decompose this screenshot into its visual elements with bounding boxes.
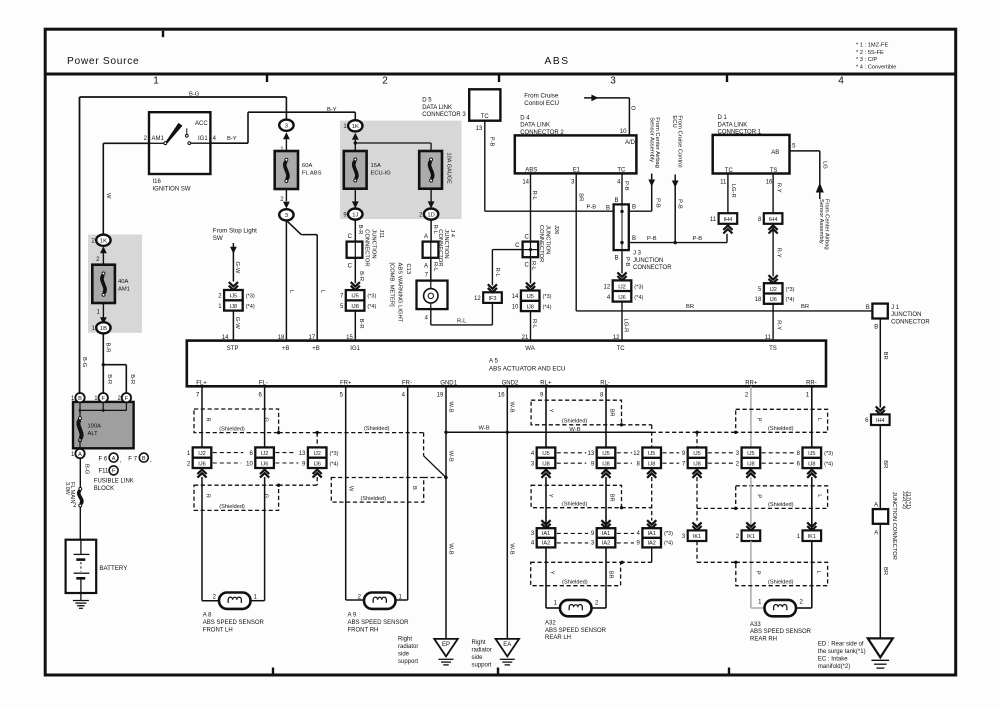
wire B-G top	[80, 91, 287, 393]
connector 1B	[91, 303, 110, 333]
section ticks and numbers	[153, 31, 844, 674]
wire FL- lower	[251, 477, 265, 601]
svg-text:P-B: P-B	[676, 199, 682, 209]
svg-text:the surge tank(*1): the surge tank(*1)	[818, 649, 866, 655]
svg-text:P-B: P-B	[647, 236, 657, 242]
svg-text:FL-: FL-	[259, 380, 268, 386]
svg-text:B: B	[614, 256, 618, 262]
svg-text:IK1: IK1	[693, 534, 701, 540]
svg-text:IJ5: IJ5	[648, 451, 655, 457]
svg-text:J 3: J 3	[633, 251, 642, 257]
connector 3 upper	[279, 120, 293, 153]
svg-text:A: A	[874, 502, 878, 508]
svg-text:DATA LINK: DATA LINK	[520, 123, 550, 129]
svg-text:13: 13	[588, 451, 595, 457]
wire B-Y from IG1	[210, 107, 355, 143]
svg-text:manifold(*2): manifold(*2)	[818, 664, 850, 670]
header title Power Source	[67, 56, 139, 67]
dashed W-B to RR shield	[652, 431, 738, 448]
svg-text:IG1: IG1	[198, 136, 208, 142]
wire G-W to STP pin	[222, 311, 240, 341]
svg-text:R-Y: R-Y	[775, 320, 781, 330]
wire W-B bus	[444, 425, 651, 434]
From Stop Light SW source	[213, 228, 257, 282]
svg-text:60A: 60A	[302, 163, 312, 169]
svg-text:13: 13	[299, 451, 306, 457]
wire G-W to IJ5	[229, 262, 240, 291]
svg-text:17: 17	[309, 335, 316, 341]
svg-text:W: W	[105, 193, 111, 199]
svg-text:A: A	[424, 263, 428, 269]
svg-text:JUNCTION: JUNCTION	[545, 225, 551, 254]
svg-text:(*3): (*3)	[543, 294, 552, 300]
svg-text:3.0W: 3.0W	[64, 482, 70, 496]
svg-text:TS: TS	[769, 346, 777, 352]
svg-text:IJ6: IJ6	[198, 461, 205, 467]
svg-text:ABS: ABS	[545, 56, 570, 67]
svg-text:(*4): (*4)	[246, 304, 255, 310]
ground ED EC	[868, 638, 893, 668]
junction IJ5 IJ8 (STP)	[218, 290, 255, 311]
svg-text:TC: TC	[617, 346, 626, 352]
svg-text:IJ5: IJ5	[542, 451, 549, 457]
svg-text:EC : Intake: EC : Intake	[818, 657, 848, 663]
svg-text:Right: Right	[398, 637, 412, 643]
wire RR+ upper	[750, 386, 752, 447]
svg-text:(*4): (*4)	[824, 461, 833, 467]
svg-text:O: O	[630, 106, 636, 111]
junction IJ5 IJ8 (RR-)	[797, 448, 834, 478]
wire GND2 W-B	[507, 386, 514, 639]
svg-text:(Shielded): (Shielded)	[562, 419, 588, 425]
svg-text:ABS WARNING LIGHT: ABS WARNING LIGHT	[397, 263, 403, 323]
svg-text:IA1: IA1	[602, 531, 610, 537]
speed sensor A8 front LH	[203, 593, 265, 634]
svg-text:IJ8: IJ8	[648, 461, 655, 467]
wire J4 to C13	[424, 258, 438, 281]
svg-text:* 3 : C/P: * 3 : C/P	[856, 57, 877, 63]
junction connector J4	[423, 229, 455, 266]
svg-text:CONNECTOR: CONNECTOR	[363, 229, 369, 266]
gray panel fuse block	[340, 121, 462, 219]
junction IJ2 IJ6 (FL-)	[246, 447, 274, 477]
svg-text:SW: SW	[213, 235, 223, 242]
svg-text:ECU-IG: ECU-IG	[371, 171, 392, 177]
svg-text:L: L	[816, 418, 822, 421]
shield box FL upper	[194, 409, 280, 434]
svg-text:D 1: D 1	[718, 115, 728, 121]
svg-text:BLOCK: BLOCK	[94, 486, 114, 492]
svg-text:B-R: B-R	[105, 343, 111, 353]
connector 1K (AM1 fuse)	[91, 235, 110, 265]
svg-text:A 8: A 8	[203, 613, 212, 619]
junction IJ2 IJ6 (FL shield)	[299, 447, 339, 477]
svg-text:C: C	[515, 243, 520, 249]
ECU top pin labels	[227, 335, 777, 352]
wire FL+ sensor	[201, 386, 203, 469]
svg-text:B: B	[866, 305, 870, 311]
svg-text:IK1: IK1	[747, 534, 755, 540]
svg-text:ABS SPEED SENSOR: ABS SPEED SENSOR	[545, 628, 607, 634]
wire B-R 1J to J11	[348, 220, 364, 242]
svg-text:Y: Y	[548, 409, 554, 413]
svg-text:IJ5: IJ5	[230, 294, 237, 300]
svg-text:100A: 100A	[88, 424, 102, 430]
svg-text:Sensor Assembly: Sensor Assembly	[818, 199, 824, 244]
svg-text:IJ8: IJ8	[602, 461, 609, 467]
svg-text:AM1: AM1	[152, 136, 165, 142]
svg-text:F: F	[112, 469, 116, 475]
svg-text:10: 10	[620, 129, 627, 135]
svg-text:12: 12	[633, 451, 640, 457]
svg-text:F 7: F 7	[128, 456, 137, 462]
wire BR bus E1 to J1	[576, 304, 872, 311]
svg-text:R-L: R-L	[432, 262, 438, 272]
wire R-L J26 to IJ5	[526, 257, 536, 290]
wire FL+ lower	[202, 477, 219, 601]
speed sensor A32 rear LH	[545, 600, 607, 641]
svg-text:C: C	[348, 263, 353, 269]
svg-text:(*3): (*3)	[786, 287, 795, 293]
svg-text:BR: BR	[686, 304, 694, 310]
wire +B pin18	[286, 220, 294, 340]
svg-text:P-B: P-B	[655, 198, 661, 208]
wire B-R J11 to IJ5	[348, 258, 364, 290]
svg-text:1: 1	[153, 76, 159, 87]
svg-text:12: 12	[474, 296, 481, 302]
fuse 10A GAUGE	[419, 151, 451, 189]
svg-text:(*3): (*3)	[634, 284, 643, 290]
svg-text:BR: BR	[609, 409, 615, 417]
junction IJ5 IJ8 (RR shield)	[682, 448, 706, 478]
svg-text:* 1 : 1MZ-FE: * 1 : 1MZ-FE	[856, 43, 888, 49]
svg-text:14: 14	[522, 179, 529, 185]
svg-text:B: B	[632, 205, 636, 211]
svg-text:R-Y: R-Y	[775, 183, 781, 193]
speed sensor A9 front RH	[348, 593, 410, 634]
svg-text:E1: E1	[573, 168, 581, 174]
shield drain RL bottom	[620, 547, 651, 564]
svg-text:C: C	[348, 234, 353, 240]
connector 1J	[343, 189, 362, 220]
svg-text:15A: 15A	[371, 163, 381, 169]
svg-text:B-R: B-R	[106, 374, 112, 384]
svg-text:AM1: AM1	[118, 287, 130, 293]
svg-text:DATA LINK: DATA LINK	[718, 122, 748, 128]
connector 1D	[419, 189, 438, 220]
wire B J3 to IJ2	[614, 250, 630, 280]
svg-text:TC: TC	[617, 168, 626, 174]
header title ABS	[545, 56, 570, 67]
svg-text:ABS SPEED SENSOR: ABS SPEED SENSOR	[203, 620, 265, 626]
svg-text:(Shielded): (Shielded)	[768, 426, 794, 432]
shield box RR middle	[697, 486, 828, 510]
svg-text:G: G	[263, 494, 269, 498]
fuse 60A FL ABS	[275, 151, 322, 189]
svg-text:IJ8: IJ8	[542, 461, 549, 467]
svg-text:LG-R: LG-R	[730, 184, 736, 198]
svg-text:1J: 1J	[352, 212, 358, 218]
wire B-R to fusible links	[102, 333, 135, 393]
svg-text:J11: J11	[378, 229, 384, 238]
svg-text:1B: 1B	[100, 326, 107, 332]
svg-text:R: R	[205, 418, 211, 422]
svg-text:P: P	[756, 418, 762, 422]
ignition switch I16 box	[144, 112, 217, 192]
connector 3 lower	[279, 189, 293, 220]
svg-text:B: B	[632, 236, 636, 242]
svg-text:B: B	[142, 456, 146, 462]
svg-text:(Shielded): (Shielded)	[562, 502, 588, 508]
svg-text:B-G: B-G	[189, 91, 200, 97]
svg-text:W-B: W-B	[448, 402, 454, 413]
svg-text:12: 12	[604, 284, 611, 290]
svg-text:A 9: A 9	[348, 613, 357, 619]
svg-text:R-L: R-L	[457, 318, 467, 324]
svg-text:11: 11	[710, 217, 717, 223]
svg-text:FL+: FL+	[196, 380, 207, 386]
svg-text:11: 11	[720, 180, 727, 186]
shield box RR upper	[736, 409, 828, 432]
junction IJ5 IJ8 (IG1)	[340, 290, 377, 311]
svg-text:TC: TC	[725, 168, 734, 174]
note ED EC	[818, 642, 866, 670]
svg-text:3: 3	[610, 76, 616, 87]
svg-text:W-B: W-B	[448, 451, 454, 462]
data link connector 1 D1	[713, 115, 790, 174]
svg-text:J 1: J 1	[891, 305, 900, 311]
ABS warning light C13	[389, 263, 448, 323]
battery	[66, 540, 128, 601]
svg-text:IJ6: IJ6	[261, 461, 268, 467]
svg-text:DATA LINK: DATA LINK	[422, 105, 452, 111]
svg-text:2: 2	[382, 76, 388, 87]
svg-text:R-L: R-L	[432, 225, 438, 235]
fuse 15A ECU-IG	[344, 151, 391, 189]
svg-text:16: 16	[766, 180, 773, 186]
junction IJ5 IJ8 (RL-)	[588, 448, 616, 478]
svg-text:IK1: IK1	[808, 534, 816, 540]
svg-text:A33: A33	[750, 622, 761, 628]
svg-text:IA2: IA2	[542, 541, 550, 547]
svg-text:P-B: P-B	[624, 257, 630, 267]
svg-text:IJ2: IJ2	[198, 451, 205, 457]
svg-text:J22(*2): J22(*2)	[901, 491, 907, 509]
svg-text:FRONT LH: FRONT LH	[203, 627, 233, 633]
svg-text:IA1: IA1	[542, 531, 550, 537]
wire R-Y D1 TS to IH4	[766, 174, 782, 214]
svg-text:P-B: P-B	[488, 137, 494, 147]
wire B-R to IG1 pin	[346, 311, 364, 341]
svg-text:IA1: IA1	[647, 531, 655, 537]
svg-text:IH4: IH4	[876, 418, 885, 424]
svg-text:IJ2: IJ2	[313, 451, 320, 457]
connector IH4 (6)	[865, 406, 889, 425]
svg-text:W-B: W-B	[448, 543, 454, 554]
svg-text:R-L: R-L	[494, 268, 500, 278]
svg-text:(Shielded): (Shielded)	[768, 502, 794, 508]
fuse FL MAIN 3.0W	[64, 458, 90, 539]
svg-text:A: A	[112, 456, 116, 462]
wire to 10A GAUGE	[354, 141, 432, 151]
svg-text:(Shielded): (Shielded)	[361, 496, 387, 502]
svg-text:Sensor Assembly: Sensor Assembly	[648, 117, 654, 162]
svg-text:JUNCTION CONNECTOR: JUNCTION CONNECTOR	[891, 492, 897, 560]
svg-text:IJ6: IJ6	[313, 461, 320, 467]
svg-text:10A GAUGE: 10A GAUGE	[446, 153, 452, 185]
battery ground	[73, 601, 89, 609]
wire RL+ sensor	[545, 386, 547, 469]
svg-text:(*3): (*3)	[664, 531, 673, 537]
svg-text:+B: +B	[312, 346, 320, 352]
svg-text:B: B	[874, 325, 878, 331]
junction connector J1	[866, 304, 931, 331]
shield drain RR bottom	[697, 541, 738, 564]
wire BR D4 E1	[571, 173, 583, 311]
svg-text:B-R: B-R	[129, 374, 135, 384]
svg-text:(*3): (*3)	[246, 294, 255, 300]
svg-text:18: 18	[278, 335, 285, 341]
svg-text:JUNCTION: JUNCTION	[633, 258, 663, 264]
svg-text:13: 13	[476, 126, 483, 132]
svg-text:AB: AB	[771, 150, 779, 156]
ground EA	[472, 639, 520, 669]
wire P-B D4 TC to J3	[614, 173, 629, 204]
svg-text:IJ2: IJ2	[618, 284, 625, 290]
wire P-B J3 to IH4	[629, 234, 727, 245]
svg-text:IH4: IH4	[724, 217, 733, 223]
svg-text:4: 4	[838, 76, 844, 87]
shield box RR bottom	[736, 562, 828, 585]
svg-text:G-W: G-W	[234, 262, 240, 274]
svg-text:P-B: P-B	[693, 236, 703, 242]
wires RL through middle shield	[546, 477, 812, 530]
wire R-L to WA pin	[522, 311, 537, 341]
junction IA1 IA2 (RL+)	[531, 528, 555, 547]
svg-text:* 4 : Convertible: * 4 : Convertible	[856, 64, 896, 70]
ECU bottom pin labels	[196, 380, 817, 398]
svg-text:GND1: GND1	[440, 380, 457, 386]
svg-text:G: G	[263, 418, 269, 422]
svg-text:FUSIBLE LINK: FUSIBLE LINK	[94, 479, 134, 485]
svg-text:B: B	[606, 206, 610, 212]
svg-text:P-B: P-B	[587, 205, 597, 211]
svg-text:FL ABS: FL ABS	[302, 171, 322, 177]
svg-text:R-L: R-L	[531, 191, 537, 201]
svg-text:1K: 1K	[352, 124, 359, 130]
connector 1K ECU-IG	[343, 112, 362, 151]
svg-text:RL+: RL+	[540, 380, 552, 386]
svg-text:J26: J26	[553, 225, 559, 234]
svg-text:EP: EP	[442, 642, 450, 648]
From Cruise Control arrow (mid)	[671, 115, 683, 243]
svg-text:(*3): (*3)	[824, 451, 833, 457]
svg-text:CONNECTOR: CONNECTOR	[437, 229, 443, 266]
wire LG-R to TC pin	[613, 302, 629, 341]
wire R-L D4 ABS to WA	[522, 173, 537, 241]
svg-text:(Shielded): (Shielded)	[562, 580, 588, 586]
svg-text:ACC: ACC	[195, 121, 208, 127]
shield box RL bottom	[531, 562, 621, 585]
svg-text:BR: BR	[578, 193, 584, 201]
svg-text:D 4: D 4	[520, 115, 530, 121]
fusible link block pins B F F	[71, 393, 131, 402]
dashed columns to IA IK	[652, 477, 697, 521]
connector link dashes RL RR	[557, 453, 794, 463]
svg-text:B: B	[78, 396, 82, 402]
svg-text:(*4): (*4)	[786, 297, 795, 303]
svg-text:From Stop Light: From Stop Light	[213, 228, 257, 235]
svg-text:RR-: RR-	[806, 380, 817, 386]
shield box FL lower	[194, 477, 317, 510]
svg-text:ECU: ECU	[671, 115, 677, 127]
svg-text:(*3): (*3)	[367, 294, 376, 300]
junction IJ2 IJ6 (TC)	[604, 280, 644, 301]
wire LG D1 AB from airbag	[790, 143, 830, 249]
svg-text:IGNITION SW: IGNITION SW	[153, 186, 191, 192]
svg-text:A: A	[78, 452, 82, 458]
svg-text:W-B: W-B	[509, 543, 515, 554]
wire +B pin17	[286, 220, 324, 340]
svg-text:IA2: IA2	[602, 541, 610, 547]
svg-text:IJ5: IJ5	[693, 451, 700, 457]
svg-text:IJ8: IJ8	[747, 461, 754, 467]
svg-text:B-G: B-G	[81, 357, 87, 368]
svg-text:ABS: ABS	[525, 168, 537, 174]
wire to 60A FL ABS	[285, 97, 287, 120]
svg-text:I16: I16	[153, 179, 162, 185]
chevrons into IA IK row	[541, 520, 816, 530]
svg-text:CONNECTOR: CONNECTOR	[633, 265, 672, 271]
svg-text:IH4: IH4	[769, 217, 778, 223]
junction IJ5 IJ8 (RR+)	[736, 448, 760, 478]
svg-text:R: R	[205, 494, 211, 498]
svg-text:G-W: G-W	[234, 317, 240, 329]
svg-text:B-R: B-R	[357, 225, 363, 235]
alternator 100A ALT box	[73, 402, 134, 449]
svg-text:BR: BR	[882, 567, 888, 575]
svg-text:CONNECTOR: CONNECTOR	[891, 319, 930, 325]
svg-text:(Shielded): (Shielded)	[364, 426, 390, 432]
svg-text:FR+: FR+	[340, 380, 352, 386]
svg-text:W-B: W-B	[509, 402, 515, 413]
svg-text:(*4): (*4)	[330, 461, 339, 467]
svg-text:ED : Rear side of: ED : Rear side of	[818, 642, 864, 648]
svg-text:IJ8: IJ8	[230, 304, 237, 310]
fusible link block labels F6 F7 F11	[94, 453, 152, 492]
junction IJ5 IJ8 (WA)	[512, 291, 552, 312]
svg-text:10: 10	[246, 461, 253, 467]
junction IJ5 IJ8 (RL shield)	[633, 448, 661, 478]
svg-text:BR: BR	[801, 304, 809, 310]
svg-text:TS: TS	[770, 168, 778, 174]
svg-text:3: 3	[285, 213, 288, 219]
svg-text:B-R: B-R	[358, 319, 364, 329]
svg-text:ALT: ALT	[88, 431, 99, 437]
junction IJ2 IJ6 (FL+)	[187, 447, 211, 477]
svg-text:Right: Right	[472, 640, 486, 646]
wire R-L IF3 to J26	[492, 250, 522, 286]
svg-text:IJ2: IJ2	[261, 451, 268, 457]
connector IH4 (TS)	[758, 213, 782, 233]
svg-text:(*4): (*4)	[543, 304, 552, 310]
wire P-B D5 TC	[476, 121, 614, 212]
svg-text:TC: TC	[481, 114, 490, 120]
wire BR J1 down	[880, 319, 888, 408]
connector IH4 (TC)	[710, 213, 737, 233]
svg-text:L: L	[816, 494, 822, 497]
svg-text:radiator: radiator	[472, 648, 492, 654]
